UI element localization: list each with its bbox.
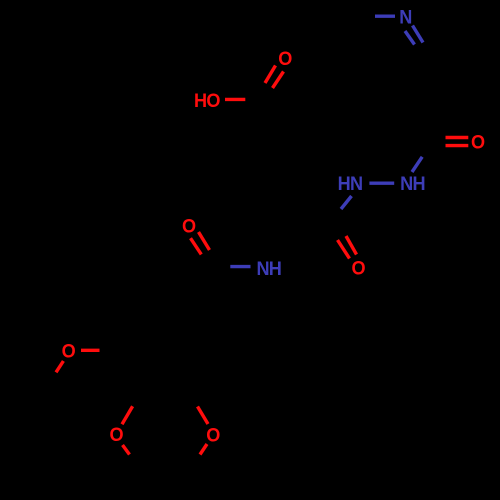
- svg-text:NH: NH: [400, 172, 425, 194]
- wire: NH to pyridoyl carbonyl C bond (blue half): [412, 157, 422, 172]
- svg-text:O: O: [62, 340, 76, 362]
- wire: 5-methoxy O-ring bond (red half): [198, 407, 209, 425]
- wire: benzamide C=O double bond inner line (red half): [191, 238, 202, 254]
- wire: 4-methoxy O-ring bond (red half): [122, 406, 133, 424]
- wire: 4-methoxy O-CH3 bond (red half): [123, 445, 130, 455]
- wire: acid C=O double bond main line (red half): [273, 72, 284, 89]
- svg-text:O: O: [182, 215, 196, 237]
- svg-text:HN: HN: [338, 172, 363, 194]
- svg-text:NH: NH: [256, 258, 281, 280]
- wire: benzamide C-NH bond (blue half): [230, 265, 250, 268]
- svg-text:O: O: [471, 131, 485, 153]
- svg-text:O: O: [351, 257, 365, 279]
- wire: N-N single bond (blue): [369, 181, 394, 184]
- wire: chain C=O double bond inner line (red half): [338, 240, 350, 259]
- svg-text:HO: HO: [194, 89, 220, 111]
- wire: acid C=O double bond inner line (red half): [265, 66, 276, 84]
- wire: chain C=O double bond main line (red half): [346, 236, 357, 255]
- wire: HO-C bond (red half): [225, 98, 245, 101]
- wire: 3-methoxy O-CH3 bond (red half): [56, 361, 63, 372]
- wire: pyridine N=C6 double bond inner line (blue half): [405, 31, 415, 45]
- wire: 5-methoxy O-CH3 bond (red half): [200, 444, 207, 455]
- svg-text:O: O: [278, 47, 292, 69]
- svg-text:N: N: [399, 6, 412, 28]
- wire: 3-methoxy O-ring bond (red half): [81, 349, 100, 352]
- wire: benzamide C=O double bond main line (red half): [199, 232, 210, 250]
- wire: HN to chain carbonyl C bond (blue half): [341, 196, 352, 209]
- svg-text:O: O: [206, 424, 220, 446]
- wire: pyridoyl C=O double bond bottom line (red half): [446, 144, 469, 147]
- svg-text:O: O: [109, 423, 123, 445]
- wire: pyridoyl C=O double bond top line (red half): [446, 136, 469, 139]
- wire: pyridine N=C6 double bond main line (blue half): [413, 26, 424, 43]
- wire: pyridine N-C2 bond (blue half): [375, 15, 395, 18]
